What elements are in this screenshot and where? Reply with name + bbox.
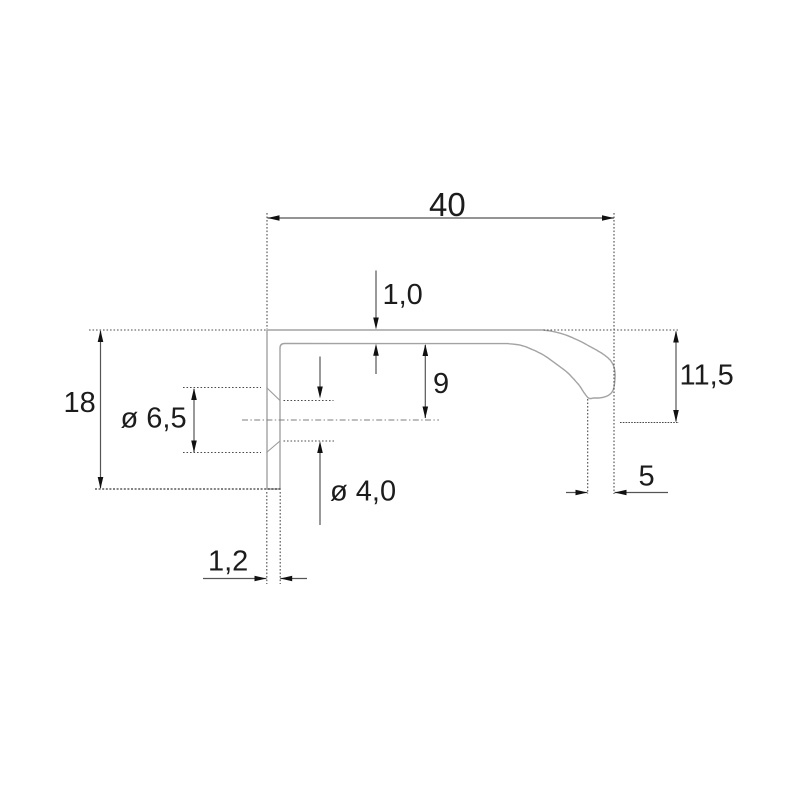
- countersink taper lower diagonal: [267, 441, 281, 453]
- dimension 9 top arrowhead: [423, 344, 429, 356]
- extension line 40 right / 5 right vertical: [613, 213, 615, 494]
- dimension 11.5 top arrowhead: [673, 331, 679, 343]
- svg-text:40: 40: [429, 186, 466, 223]
- extension line 18 top horizontal: [89, 329, 267, 331]
- dimension 1.2 right arrow: [280, 578, 307, 580]
- dimension 1.2 left arrow: [203, 578, 267, 580]
- dimension dia 4.0 lower arrow: [319, 445, 321, 525]
- extension line 11.5 bottom horizontal: [620, 422, 679, 424]
- dimension 1.0 upper arrow: [375, 271, 377, 326]
- dimension 40 left arrowhead: [268, 215, 280, 221]
- dimension dia 4.0 upper arrow: [319, 357, 321, 395]
- svg-text:ø 4,0: ø 4,0: [330, 476, 396, 508]
- hole center line: [242, 419, 439, 421]
- svg-text:1,2: 1,2: [208, 546, 248, 578]
- dimension dia 6.5 line: [193, 389, 195, 452]
- svg-text:11,5: 11,5: [680, 360, 734, 392]
- svg-text:5: 5: [639, 461, 655, 493]
- hidden line hole dia 4 bottom: [284, 440, 335, 442]
- dimension 9 line: [424, 345, 426, 418]
- dimension 1.0 lower arrow: [375, 348, 377, 374]
- hidden line hole dia 6.5 bottom: [183, 452, 261, 454]
- svg-text:ø 6,5: ø 6,5: [121, 403, 187, 435]
- extension line 1.2 right vertical: [279, 492, 281, 584]
- hidden line hole dia 4 top: [284, 400, 334, 402]
- dimension 40 right arrowhead: [602, 215, 614, 221]
- dimension 5 right arrow: [615, 492, 669, 494]
- hidden line hole dia 6.5 top: [183, 387, 261, 389]
- svg-text:18: 18: [64, 387, 96, 419]
- dimension dia 6.5 bottom arrowhead: [191, 441, 197, 453]
- dimension 18 line: [100, 331, 102, 488]
- countersink taper upper diagonal: [267, 388, 281, 401]
- extension line 5 left vertical: [587, 399, 589, 494]
- extension line 18 bottom horizontal: [95, 488, 282, 490]
- dimension 18 top arrowhead: [98, 330, 104, 342]
- dimension 9 bottom arrowhead: [423, 407, 429, 419]
- profile outline: [267, 330, 615, 489]
- dimension 11.5 bottom arrowhead: [673, 410, 679, 422]
- dimension 11.5 line: [675, 332, 677, 422]
- dimension 40 line: [268, 217, 615, 219]
- dimension dia 6.5 top arrowhead: [191, 388, 197, 400]
- svg-text:1,0: 1,0: [383, 279, 423, 311]
- extension line 1.2 left vertical: [266, 492, 268, 584]
- dimension 18 bottom arrowhead: [98, 477, 104, 489]
- extension line 11.5 top horizontal: [544, 329, 679, 331]
- svg-text:9: 9: [433, 368, 449, 400]
- extension line 40 left vertical: [266, 213, 268, 329]
- dimension 5 left arrow: [566, 492, 588, 494]
